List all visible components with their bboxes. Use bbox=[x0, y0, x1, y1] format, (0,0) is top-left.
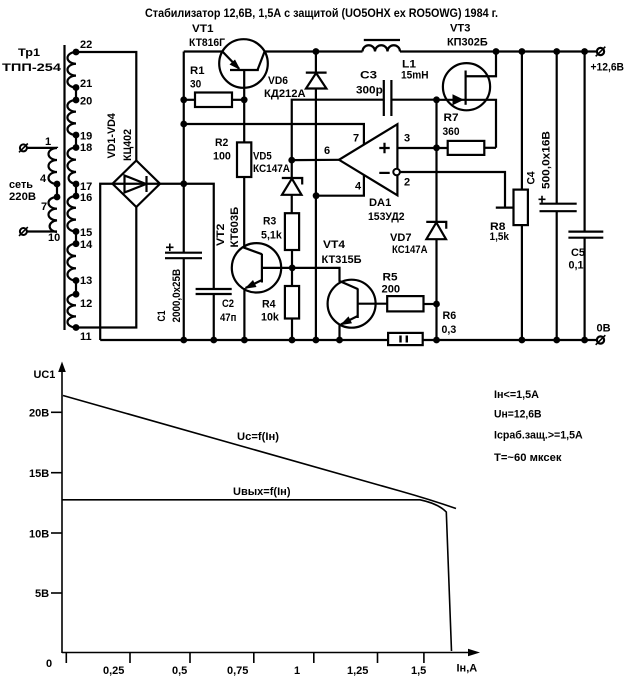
transistor VT4 circle bbox=[328, 280, 376, 328]
VT3 gate arrow bbox=[453, 94, 465, 105]
diode VD6 bottom wire to rail bbox=[315, 89, 317, 341]
wire bridge minus to bottom rail bbox=[100, 184, 112, 340]
primary winding 1-4 bbox=[49, 148, 58, 184]
svg-text:100: 100 bbox=[213, 151, 231, 163]
resistor R2 box bbox=[237, 142, 251, 177]
VT2 emitter wire to rail bbox=[243, 288, 245, 340]
svg-text:12: 12 bbox=[80, 298, 92, 310]
transistor VT2 circle bbox=[232, 243, 281, 292]
svg-text:200: 200 bbox=[382, 284, 401, 296]
bridge internal wire bbox=[113, 183, 161, 185]
svg-text:Стабилизатор 12,6В, 1,5А с за: Стабилизатор 12,6В, 1,5А с защитой (UO5O… bbox=[145, 6, 498, 20]
svg-text:Тр1: Тр1 bbox=[18, 47, 40, 59]
top rail mid segment bbox=[265, 50, 363, 52]
svg-text:18: 18 bbox=[80, 142, 92, 154]
node dot gate/C3 bbox=[433, 96, 440, 103]
top rail left segment bbox=[184, 50, 223, 52]
VT3 drain lead bbox=[466, 52, 496, 77]
secondary winding 14-13 bbox=[67, 244, 76, 281]
svg-text:0В: 0В bbox=[597, 323, 611, 335]
VT2 base bar bbox=[261, 254, 263, 283]
svg-text:R5: R5 bbox=[383, 272, 398, 284]
svg-text:2: 2 bbox=[404, 177, 410, 189]
VT4 base lead to R5 bbox=[358, 303, 388, 305]
resistor R4 box bbox=[285, 286, 299, 319]
primary winding 7-10 bbox=[49, 197, 58, 232]
svg-text:300p: 300p bbox=[356, 85, 383, 97]
svg-text:2000,0x25В: 2000,0x25В bbox=[171, 269, 183, 323]
diode VD6 cathode bar bbox=[306, 71, 327, 73]
node dot pin6/VD5/C3 bbox=[288, 157, 295, 164]
diode VD6 top wire bbox=[315, 52, 317, 73]
svg-text:1: 1 bbox=[294, 665, 300, 677]
node dot VD6 top rail bbox=[313, 48, 320, 55]
svg-text:VT2: VT2 bbox=[215, 224, 227, 246]
bridge internal diode triangle bbox=[125, 176, 147, 193]
node dot R5/VD7 bbox=[433, 301, 440, 308]
bridge rectifier VD1-VD4 diamond bbox=[113, 161, 161, 208]
secondary winding 12-11 bbox=[68, 294, 77, 327]
svg-text:C1: C1 bbox=[156, 311, 168, 322]
svg-text:R3: R3 bbox=[263, 216, 276, 228]
secondary winding 22-21 bbox=[67, 52, 76, 88]
svg-text:сеть: сеть bbox=[9, 179, 33, 191]
VT2 base lead bbox=[262, 267, 293, 269]
output terminal +12,6V bbox=[597, 48, 604, 55]
svg-text:16: 16 bbox=[80, 192, 92, 204]
svg-text:6: 6 bbox=[324, 145, 330, 157]
x ticks bbox=[66, 653, 424, 664]
node dot R8 rail top bbox=[519, 48, 526, 55]
x axis bbox=[62, 652, 470, 654]
svg-text:DA1: DA1 bbox=[369, 197, 391, 209]
svg-text:T=~60 мксек: T=~60 мксек bbox=[494, 452, 562, 464]
svg-text:1,5k: 1,5k bbox=[490, 231, 510, 243]
node dot C4 rail top bbox=[553, 48, 560, 55]
op-amp pin 2 circle bbox=[393, 169, 400, 176]
resistor R6 inner marks bbox=[401, 336, 407, 343]
output terminal 0V bbox=[597, 336, 604, 343]
resistor R6 box bbox=[388, 333, 423, 345]
wire base node to R4 bbox=[291, 268, 293, 286]
svg-text:UC1: UC1 bbox=[34, 369, 56, 381]
wire 11 to bridge AC2 bbox=[76, 207, 136, 328]
raw+ bus vertical lower bbox=[183, 258, 185, 340]
C5 bottom wire to rail bbox=[583, 238, 585, 340]
svg-text:+12,6В: +12,6В bbox=[591, 62, 625, 74]
svg-text:VD1-VD4: VD1-VD4 bbox=[106, 112, 118, 158]
R8 top wire from rail bbox=[521, 52, 523, 190]
wire VT1 base to R2 bbox=[243, 100, 245, 143]
capacitor C1 plus sign bbox=[166, 244, 174, 252]
curve Uc=f(In) bbox=[63, 396, 456, 509]
zener VD7 bottom wire bbox=[435, 239, 437, 340]
svg-text:КТ315Б: КТ315Б bbox=[322, 254, 362, 266]
wire R3 to base node bbox=[291, 250, 293, 268]
svg-text:VT3: VT3 bbox=[450, 23, 470, 35]
capacitor C1 plates bbox=[165, 252, 202, 254]
C4 top wire from rail bbox=[556, 52, 558, 204]
svg-text:10k: 10k bbox=[261, 312, 280, 324]
primary terminal dots bbox=[54, 181, 61, 188]
node dot R1 left bbox=[180, 96, 187, 103]
svg-text:21: 21 bbox=[80, 78, 92, 90]
VT2 emitter arrow bbox=[245, 280, 257, 289]
svg-text:10В: 10В bbox=[29, 529, 49, 541]
secondary link 17-16 bbox=[75, 184, 77, 196]
wire gate node down to VD7 bbox=[435, 100, 437, 222]
resistor R1 box bbox=[195, 93, 232, 108]
VT1 base bar bbox=[230, 69, 259, 71]
capacitor C5 plates bbox=[568, 231, 603, 233]
svg-text:11: 11 bbox=[80, 331, 92, 343]
bottom rail 0V right bbox=[423, 339, 598, 341]
svg-text:C3: C3 bbox=[360, 70, 377, 82]
svg-text:10: 10 bbox=[48, 232, 60, 244]
svg-text:153УД2: 153УД2 bbox=[368, 211, 405, 223]
wire mains top to primary bbox=[27, 147, 57, 149]
svg-text:1: 1 bbox=[45, 136, 51, 148]
zener VD7 cathode bar with hook bbox=[426, 222, 446, 229]
primary link 4-7 bbox=[56, 184, 58, 197]
svg-text:0,25: 0,25 bbox=[103, 665, 124, 677]
svg-text:14: 14 bbox=[80, 239, 93, 251]
y axis arrow bbox=[58, 362, 66, 373]
svg-text:R1: R1 bbox=[190, 65, 205, 77]
VT2 emitter diagonal bbox=[246, 280, 262, 288]
op-amp pin 6 wire bbox=[292, 159, 339, 162]
svg-text:КС147А: КС147А bbox=[392, 244, 428, 256]
secondary link 15-14 bbox=[75, 232, 77, 244]
C3 plates bbox=[383, 80, 385, 116]
transistor VT3 circle bbox=[443, 63, 490, 110]
svg-text:1,25: 1,25 bbox=[347, 665, 368, 677]
svg-text:0,3: 0,3 bbox=[442, 324, 457, 336]
mains terminal bottom bbox=[20, 228, 27, 235]
svg-text:КД212А: КД212А bbox=[264, 88, 306, 100]
inductor L1 winding bbox=[363, 45, 401, 51]
svg-text:15mH: 15mH bbox=[401, 70, 429, 82]
resistor R1 leads bbox=[184, 99, 195, 101]
svg-text:500,0x16В: 500,0x16В bbox=[541, 131, 553, 189]
VT4 emitter diagonal bbox=[341, 316, 358, 324]
svg-text:C4: C4 bbox=[526, 171, 538, 185]
svg-text:Iсраб.защ.>=1,5А: Iсраб.защ.>=1,5А bbox=[494, 430, 583, 442]
resistor R3 box bbox=[285, 213, 299, 250]
C5 top wire from rail bbox=[583, 52, 585, 232]
y tick 20V bbox=[51, 411, 62, 413]
svg-text:13: 13 bbox=[80, 275, 92, 287]
capacitor C4 plates bbox=[540, 203, 577, 205]
secondary link 19-18 bbox=[75, 135, 77, 148]
transformer core bbox=[63, 45, 65, 330]
svg-text:КТ816Г: КТ816Г bbox=[189, 37, 226, 49]
op-amp DA1 triangle bbox=[339, 124, 397, 195]
svg-text:0,1: 0,1 bbox=[569, 260, 584, 272]
y axis bbox=[61, 365, 63, 653]
op-amp minus sign bbox=[379, 172, 389, 174]
node dot VT3 drain rail bbox=[493, 48, 500, 55]
diode VD6 triangle bbox=[306, 73, 326, 89]
mains terminal top bbox=[20, 144, 27, 151]
VT4 collector wire from base node bbox=[292, 268, 358, 289]
wire R4 to rail bbox=[291, 319, 293, 341]
secondary terminal dots bbox=[73, 49, 80, 56]
zener VD7 triangle bbox=[426, 223, 446, 240]
svg-text:C2: C2 bbox=[222, 298, 234, 310]
svg-text:КС147А: КС147А bbox=[253, 163, 290, 175]
svg-text:20: 20 bbox=[80, 96, 92, 108]
svg-text:VT1: VT1 bbox=[192, 23, 214, 35]
svg-text:15: 15 bbox=[80, 227, 92, 239]
capacitor C4 plus sign bbox=[539, 196, 546, 203]
bottom rail 0V left bbox=[100, 339, 388, 341]
VT1 base lead down bbox=[243, 70, 245, 100]
y tick 15V bbox=[51, 472, 62, 474]
VT3 gate+source lead bbox=[437, 100, 497, 148]
inductor L1 core bar bbox=[364, 39, 400, 41]
svg-text:Iн,А: Iн,А bbox=[457, 663, 478, 675]
svg-text:Uн=12,6В: Uн=12,6В bbox=[494, 409, 542, 421]
resistor R5 box bbox=[387, 296, 423, 311]
wire bridge plus to C2 node bbox=[160, 184, 214, 289]
wire mains bottom to primary bbox=[27, 230, 57, 232]
svg-text:C5: C5 bbox=[571, 247, 585, 259]
svg-text:0: 0 bbox=[46, 658, 52, 670]
svg-text:15В: 15В bbox=[29, 468, 49, 480]
svg-text:30: 30 bbox=[190, 79, 201, 91]
VT1 emitter diagonal bbox=[222, 52, 239, 69]
svg-text:R6: R6 bbox=[443, 310, 457, 322]
secondary winding 20-19 bbox=[67, 100, 76, 135]
svg-text:47п: 47п bbox=[220, 312, 236, 324]
svg-text:0,75: 0,75 bbox=[227, 665, 248, 677]
svg-text:5В: 5В bbox=[35, 588, 49, 600]
resistor R7 box bbox=[448, 141, 485, 155]
node dot R3/R4/VT2 base bbox=[289, 265, 296, 272]
top rail right segment bbox=[400, 50, 597, 52]
svg-text:Uвых=f(Iн): Uвых=f(Iн) bbox=[233, 486, 291, 498]
op-amp pin 4 wire bbox=[316, 175, 364, 196]
svg-text:22: 22 bbox=[80, 39, 92, 51]
op-amp plus sign bbox=[379, 143, 389, 153]
node dot pin4/VD6 bbox=[313, 192, 320, 199]
svg-text:Iн<=1,5А: Iн<=1,5А bbox=[494, 389, 539, 401]
wire R2 to VT2 collector bbox=[244, 177, 262, 254]
y tick 5V bbox=[51, 592, 62, 594]
resistor R5 right lead bbox=[424, 303, 437, 305]
svg-text:R4: R4 bbox=[262, 299, 276, 311]
transistor VT1 circle bbox=[219, 39, 268, 88]
svg-text:VT4: VT4 bbox=[323, 239, 346, 251]
svg-text:R2: R2 bbox=[215, 137, 228, 149]
secondary winding 16-15 bbox=[67, 196, 76, 232]
R8 bottom wire to rail bbox=[521, 225, 523, 340]
svg-text:Uc=f(Iн): Uc=f(Iн) bbox=[237, 431, 279, 443]
VT1 emitter arrow bbox=[230, 60, 241, 71]
resistor R7 right lead bbox=[484, 147, 496, 149]
capacitor C2 plates bbox=[196, 288, 232, 290]
capacitor C2 wire to rail bbox=[213, 294, 215, 340]
zener VD5 cathode bar with hook bbox=[282, 178, 302, 185]
svg-text:VD7: VD7 bbox=[390, 232, 412, 244]
secondary link 21-20 bbox=[75, 88, 77, 101]
zener VD5 triangle bbox=[282, 179, 302, 195]
svg-text:3: 3 bbox=[404, 133, 410, 145]
svg-text:19: 19 bbox=[80, 131, 92, 143]
node dot raw+ bus at y184 bbox=[180, 180, 187, 187]
secondary link 13-12 bbox=[75, 281, 77, 295]
svg-text:0,5: 0,5 bbox=[172, 665, 187, 677]
svg-text:КТ603Б: КТ603Б bbox=[229, 207, 241, 248]
VT3 channel bar bbox=[465, 71, 467, 105]
svg-text:7: 7 bbox=[41, 201, 47, 213]
node dot op-amp V+ tap bbox=[180, 121, 187, 128]
svg-text:220В: 220В bbox=[9, 191, 36, 203]
bottom rail node dots bbox=[180, 337, 187, 344]
svg-text:20В: 20В bbox=[29, 408, 49, 420]
op-amp V+ wire (pin 7) bbox=[184, 124, 364, 145]
svg-text:5,1k: 5,1k bbox=[261, 230, 283, 242]
svg-text:4: 4 bbox=[40, 173, 47, 185]
VT4 emitter arrow bbox=[340, 316, 352, 325]
y tick 10V bbox=[51, 532, 62, 534]
op-amp pin 2 wire to R8 bbox=[400, 172, 514, 208]
svg-text:VD6: VD6 bbox=[268, 75, 288, 87]
svg-text:КЦ402: КЦ402 bbox=[122, 129, 134, 161]
C4 bottom wire to rail bbox=[556, 211, 558, 340]
node dot R1 right / VT1 base bbox=[241, 96, 248, 103]
zener VD5 top wire bbox=[291, 160, 293, 178]
secondary winding 18-17 bbox=[68, 148, 77, 185]
svg-text:VD5: VD5 bbox=[253, 151, 272, 163]
C3 right wire to gate node bbox=[391, 99, 436, 101]
VT4 emitter wire to rail bbox=[338, 324, 340, 340]
x axis arrow bbox=[468, 649, 480, 657]
zener VD5 bottom wire bbox=[291, 195, 293, 213]
VT1 collector diagonal bbox=[258, 52, 265, 71]
bridge internal diode bar bbox=[145, 176, 147, 192]
svg-text:R7: R7 bbox=[444, 112, 459, 124]
node dot C5 rail top bbox=[581, 48, 588, 55]
wire 22 to bridge AC1 bbox=[76, 52, 136, 161]
svg-text:1,5: 1,5 bbox=[411, 665, 426, 677]
VT4 base bar bbox=[357, 288, 359, 318]
svg-text:7: 7 bbox=[353, 133, 359, 145]
raw+ bus vertical upper bbox=[183, 52, 185, 253]
C3 left wire from pin6 node bbox=[292, 100, 384, 160]
op-amp pin 3 wire bbox=[397, 147, 447, 149]
resistor R8 box bbox=[514, 190, 528, 226]
svg-text:КП302Б: КП302Б bbox=[447, 37, 488, 49]
svg-text:ТПП-254: ТПП-254 bbox=[2, 62, 62, 74]
curve Uvyh=f(In) bbox=[62, 500, 452, 651]
svg-text:4: 4 bbox=[355, 181, 362, 193]
svg-text:360: 360 bbox=[443, 126, 460, 138]
node dot pin3/R7 bbox=[433, 144, 440, 151]
